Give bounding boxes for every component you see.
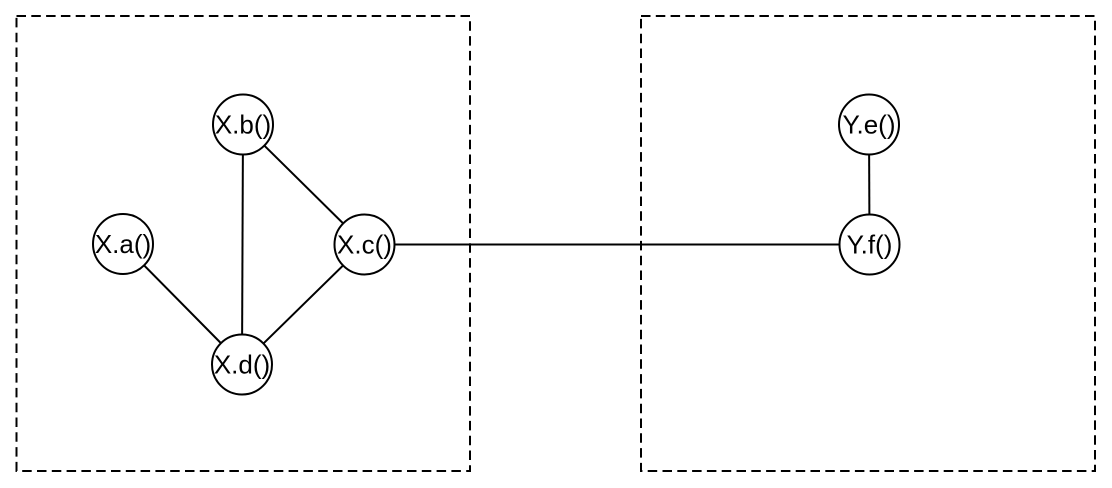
wire X.b - X.d [242, 125, 243, 365]
node Y.e [839, 95, 899, 155]
wire X.b - X.c [243, 125, 365, 245]
svg-text:X.d(): X.d() [214, 350, 270, 380]
wire X.c - X.d [242, 245, 365, 365]
node Y.f [840, 215, 900, 275]
wire X.a - X.d [123, 244, 242, 365]
svg-text:X.b(): X.b() [215, 110, 271, 140]
cluster box X (dashed) [17, 16, 471, 471]
wire Y.e - Y.f [868, 125, 871, 245]
wire X.c - Y.f [365, 244, 870, 246]
node X.c [335, 215, 395, 275]
node X.b [213, 95, 273, 155]
node X.d [212, 335, 272, 395]
svg-text:Y.e(): Y.e() [843, 110, 896, 140]
svg-text:X.a(): X.a() [95, 229, 151, 259]
node X.a [93, 214, 153, 274]
svg-text:Y.f(): Y.f() [847, 230, 893, 260]
svg-text:X.c(): X.c() [337, 230, 392, 260]
cluster box Y (dashed) [641, 16, 1095, 471]
